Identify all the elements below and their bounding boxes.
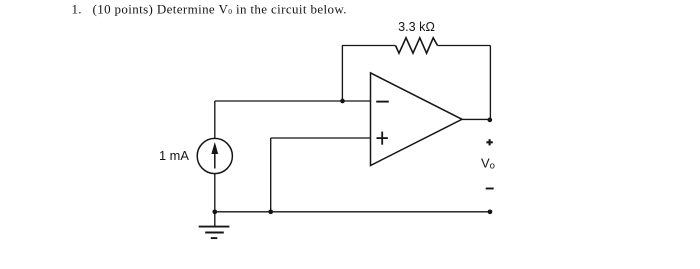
svg-text:1.: 1. <box>72 1 82 16</box>
wire: feedback top-left segment <box>342 45 396 47</box>
svg-text:(10 points) Determine V0 in th: (10 points) Determine V0 in the circuit … <box>93 1 347 16</box>
label: plus polarity of Vo <box>486 139 492 145</box>
wire: bottom ground rail <box>215 211 491 213</box>
wire: current source bottom to ground rail <box>214 174 216 212</box>
wire: inverting input horizontal <box>215 100 371 102</box>
wire: op-amp output to output node <box>462 118 490 120</box>
title text <box>72 1 347 16</box>
terminal dot: bottom right rail end <box>488 209 493 214</box>
svg-text:3.3 kΩ: 3.3 kΩ <box>398 20 435 34</box>
wire: stub from ground rail down to ground symbol <box>214 212 216 227</box>
wire: right vertical from feedback down to output node <box>489 46 491 120</box>
junction dot: inverting input node <box>340 99 345 104</box>
label: minus polarity of Vo <box>486 188 494 190</box>
current source I1 circle <box>197 138 232 173</box>
terminal dot: output node <box>487 118 492 123</box>
op-amp U1 triangle <box>371 73 463 166</box>
junction dot: non-inverting branch on ground rail <box>268 209 273 214</box>
wire: left vertical from feedback down to inverting input node <box>341 46 343 102</box>
current source arrow <box>211 142 218 169</box>
resistor R (3.3 kOhm) zigzag <box>396 38 438 53</box>
wire: vertical from inverting wire down to current source top <box>214 101 216 139</box>
svg-text:1 mA: 1 mA <box>159 148 189 163</box>
op-amp minus sign (inverting input) <box>376 101 389 103</box>
op-amp plus sign (non-inverting input) <box>377 132 388 145</box>
svg-text:Vo: Vo <box>481 155 495 171</box>
junction dot: ground node under current source <box>212 209 217 214</box>
ground symbol <box>199 227 230 239</box>
wire: non-inverting input horizontal <box>271 137 371 139</box>
wire: non-inverting vertical down to ground rail <box>270 138 272 212</box>
wire: feedback top-right segment <box>438 45 491 47</box>
